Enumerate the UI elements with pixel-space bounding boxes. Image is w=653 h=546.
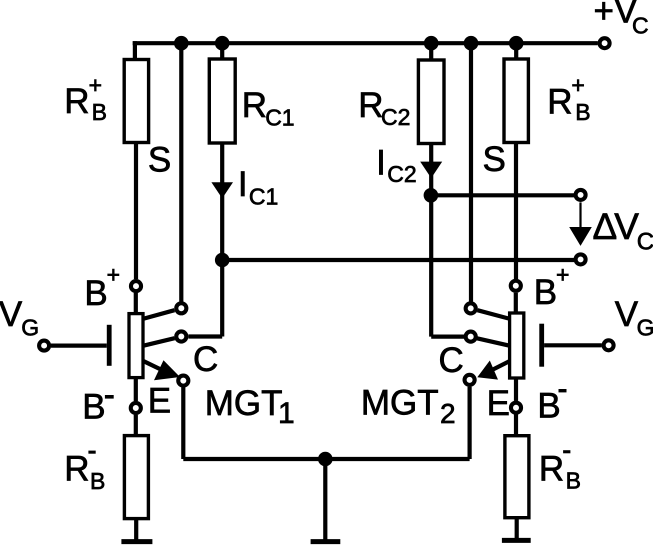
arrow emitter MGT1 — [154, 360, 180, 380]
wire C1 horizontal — [188, 334, 222, 338]
wire collector2 output line — [431, 193, 574, 197]
wire slant C contact MGT2 — [477, 338, 510, 346]
resistor RB+ left — [124, 60, 148, 143]
transistor MGT2 channel — [510, 313, 524, 378]
terminal B+ MGT2 — [511, 281, 521, 291]
resistor RB+ right — [504, 59, 528, 143]
svg-text:B: B — [537, 386, 560, 425]
wire RC2 down to node collector 2 — [429, 144, 433, 196]
wire channel MGT2 to B- — [514, 378, 518, 401]
svg-text:B: B — [575, 99, 590, 125]
terminal E MGT2 — [465, 375, 475, 385]
wire B+ circle to channel MGT1 — [134, 293, 138, 314]
wire RB+ left bottom to B+ — [134, 143, 138, 280]
svg-text:V: V — [614, 206, 639, 247]
terminal B+ MGT1 — [131, 281, 141, 291]
resistor RB- right — [505, 436, 529, 518]
junction dot collector2 node — [424, 188, 439, 203]
wire S line left — [179, 43, 183, 301]
wire slant C contact MGT1 — [143, 338, 175, 346]
svg-text:G: G — [21, 315, 39, 341]
wire slant S contact MGT2 — [477, 310, 510, 319]
resistor RC2 — [418, 60, 444, 144]
svg-text:C: C — [439, 341, 464, 380]
terminal E MGT1 — [178, 376, 188, 386]
transistor MGT1 channel — [129, 314, 143, 378]
svg-text:B: B — [92, 99, 107, 125]
svg-text:B: B — [534, 273, 557, 312]
svg-text:C1: C1 — [249, 184, 278, 210]
terminal +VC — [600, 38, 610, 48]
terminal C MGT2 — [466, 332, 476, 342]
wire C2 horizontal — [431, 335, 464, 339]
terminal B- MGT2 — [511, 403, 521, 413]
svg-text:C: C — [632, 13, 649, 39]
svg-text:V: V — [615, 295, 639, 334]
svg-text:R: R — [64, 82, 89, 121]
svg-text:C2: C2 — [381, 104, 410, 130]
wire RB- left to ground — [134, 519, 138, 542]
wire top supply rail — [133, 41, 598, 45]
svg-text:B: B — [566, 467, 581, 493]
svg-text:1: 1 — [278, 397, 295, 430]
wire emitter arrow lead MGT2 — [490, 361, 510, 371]
svg-text:B: B — [84, 274, 107, 313]
wire rail to RC1 — [220, 43, 224, 59]
wire rail to RC2 — [429, 43, 433, 60]
svg-text:R: R — [547, 83, 572, 122]
wire center ground stem — [323, 459, 327, 541]
resistor RB- left — [124, 436, 148, 519]
svg-text:G: G — [637, 314, 653, 340]
junction dot collector1 node — [215, 253, 230, 268]
svg-text:C: C — [193, 340, 218, 379]
wire emitter arrow lead MGT1 — [143, 361, 165, 372]
svg-text:MGT: MGT — [205, 384, 283, 423]
terminal VG right — [604, 340, 614, 350]
arrow IC2 — [420, 162, 442, 179]
wire B- circle to RB- left — [134, 415, 138, 436]
svg-text:+: + — [107, 261, 120, 287]
junction dot rail RB+ right — [509, 36, 524, 51]
wire RC1 down to node collector 1 — [220, 143, 224, 260]
terminal B- MGT1 — [131, 403, 141, 413]
junction dot rail S1 — [174, 36, 189, 51]
terminal S MGT1 — [176, 303, 186, 313]
svg-text:S: S — [148, 141, 171, 180]
wire left rail corner down to RB+ — [133, 41, 137, 59]
svg-text:V: V — [0, 295, 23, 334]
resistor RC1 — [209, 59, 235, 143]
terminal S MGT2 — [466, 303, 476, 313]
arrow deltaVC head — [569, 227, 592, 246]
svg-text:MGT: MGT — [361, 384, 439, 423]
svg-text:R: R — [242, 86, 267, 125]
ground left — [121, 539, 152, 544]
gate plate MGT2 — [539, 324, 544, 367]
svg-text:R: R — [64, 450, 89, 489]
svg-text:E: E — [487, 384, 510, 423]
terminal C MGT1 — [176, 331, 186, 341]
ground right — [502, 538, 531, 543]
junction dot emitter node — [318, 452, 333, 467]
wire node down to C2 terminal — [429, 195, 433, 336]
wire cross line collector1 output — [222, 258, 574, 262]
svg-text:B: B — [90, 468, 105, 494]
svg-text:B: B — [82, 387, 105, 426]
junction dot rail RC1 — [215, 36, 230, 51]
wire S line right — [469, 43, 473, 301]
svg-text:+: + — [556, 262, 569, 288]
wire RB- right to ground — [515, 518, 519, 541]
arrow IC1 — [211, 182, 233, 198]
gate plate MGT1 — [107, 325, 112, 366]
wire RB+ right bottom to B+ — [514, 143, 518, 280]
svg-text:E: E — [148, 382, 171, 421]
wire E1 down — [181, 388, 185, 460]
svg-text:2: 2 — [440, 398, 456, 429]
wire VG left — [51, 344, 107, 348]
terminal output upper — [576, 190, 586, 200]
ground center — [311, 539, 341, 544]
svg-text:+: + — [89, 72, 102, 98]
svg-text:R: R — [539, 449, 564, 488]
svg-text:I: I — [238, 165, 248, 204]
junction dot rail RC2 — [424, 36, 439, 51]
terminal output lower — [576, 254, 586, 264]
wire B- circle to RB- right — [514, 415, 518, 436]
wire common emitter line — [183, 457, 469, 461]
svg-text:C: C — [637, 229, 653, 256]
wire rail to RB+ right — [514, 43, 518, 59]
terminal VG left — [39, 341, 49, 351]
svg-text:C1: C1 — [265, 104, 294, 130]
wire VG right — [544, 343, 602, 347]
svg-text:I: I — [376, 144, 386, 183]
wire E2 down — [468, 387, 472, 459]
svg-text:S: S — [483, 140, 506, 179]
svg-text:+: + — [571, 72, 584, 98]
arrow deltaVC stem — [579, 202, 581, 233]
arrow emitter MGT2 — [477, 361, 498, 380]
wire slant S contact MGT1 — [143, 310, 175, 319]
wire node down to C1 terminal — [220, 260, 224, 337]
svg-text:C2: C2 — [387, 161, 416, 187]
svg-text:R: R — [358, 86, 383, 125]
junction dot rail S2 — [464, 36, 479, 51]
wire channel MGT1 to B- — [134, 378, 138, 402]
wire B+ circle to channel MGT2 — [514, 293, 518, 313]
